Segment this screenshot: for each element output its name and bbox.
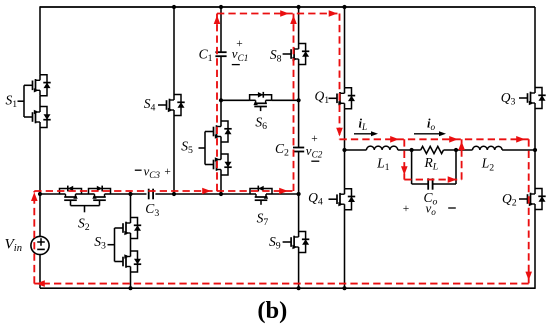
label C1 xyxy=(199,47,213,65)
red arrow output b xyxy=(449,136,458,143)
wire C2 to rail xyxy=(298,152,300,195)
wire S9 branch lower xyxy=(298,253,300,289)
red arrow right drop xyxy=(525,272,532,281)
red arrow C1 riser xyxy=(214,15,221,24)
label S3 xyxy=(94,234,106,252)
wire S9 branch upper xyxy=(298,194,300,232)
svg-text:+: + xyxy=(164,166,171,178)
red path top xyxy=(217,13,338,15)
inductor L2 xyxy=(473,146,503,150)
label S8 xyxy=(270,47,282,65)
red arrow RL up xyxy=(458,141,465,150)
wire middle rail a xyxy=(40,193,60,195)
label S5 xyxy=(181,139,193,157)
node top rail S4 xyxy=(172,5,176,9)
red arrow mid a xyxy=(202,188,211,195)
node bottom S9 xyxy=(297,286,301,290)
transistor Q2 xyxy=(519,189,546,210)
red path C1 riser xyxy=(216,14,218,192)
transistor S6 xyxy=(250,92,272,111)
node mid rail S4 xyxy=(172,192,176,196)
red arrow Q1 drop xyxy=(336,128,343,137)
wire left rail upper xyxy=(39,6,41,75)
red path right drop xyxy=(528,139,530,283)
red arrow bottom xyxy=(36,280,45,287)
red arrow output c xyxy=(516,136,525,143)
capacitor C2 xyxy=(293,148,304,152)
wire output rail c xyxy=(444,149,473,151)
wire S8 branch upper xyxy=(298,7,300,44)
wire S5 branch lower xyxy=(220,175,222,194)
wire S6 link left xyxy=(221,99,250,101)
node top rail Q1 xyxy=(342,5,346,9)
label S6 xyxy=(255,115,267,133)
label S9 xyxy=(269,234,281,252)
label Q3 xyxy=(501,90,516,108)
label -vC3+ xyxy=(135,163,171,180)
red arrow top mid xyxy=(280,10,289,17)
label S1 xyxy=(6,93,18,111)
transistor Q4 xyxy=(329,189,356,210)
red loop RL down xyxy=(403,139,405,179)
switch S5 (MOSFET pair) xyxy=(199,121,232,175)
svg-text:+: + xyxy=(311,133,318,145)
label Q1 xyxy=(315,88,330,106)
red path mid rail xyxy=(34,190,293,192)
wire Co bottom right xyxy=(433,183,456,185)
transistor S4 xyxy=(158,95,185,116)
wire middle rail c xyxy=(155,193,250,195)
red arrow RL down xyxy=(401,166,408,175)
node mid rail S9 xyxy=(297,192,301,196)
switch S1 (MOSFET pair) xyxy=(18,75,51,128)
wire output rail a xyxy=(345,149,367,151)
red path Q1 drop xyxy=(339,14,341,140)
capacitor Co xyxy=(428,178,432,189)
red arrow RL bottom xyxy=(448,176,457,183)
wire Q1 branch upper xyxy=(344,7,346,88)
wire Q1 to output rail xyxy=(344,109,346,189)
svg-text:(b): (b) xyxy=(257,297,287,324)
transistor S8 xyxy=(283,44,310,65)
label Q2 xyxy=(502,191,517,209)
label +vC1- xyxy=(232,38,249,64)
node bottom Q4 xyxy=(342,286,346,290)
label L2 xyxy=(481,156,495,174)
wire S8 to C2 xyxy=(298,65,300,148)
node mid rail S5 xyxy=(219,192,223,196)
transistor S7 xyxy=(250,186,272,205)
node S6 left xyxy=(219,98,223,102)
svg-text:+: + xyxy=(403,203,410,215)
transistor Q1 xyxy=(329,88,356,109)
wire left rail mid xyxy=(39,128,41,195)
node mid rail S3 xyxy=(128,192,132,196)
red arrow output a xyxy=(390,136,399,143)
label +vC2- xyxy=(306,133,323,161)
label Vin xyxy=(5,236,23,255)
caption (b) xyxy=(257,297,287,324)
node S6 right xyxy=(297,98,301,102)
node output right xyxy=(533,148,537,152)
label L1 xyxy=(376,156,390,174)
red arrow left riser xyxy=(31,192,38,201)
wire S6 link right xyxy=(272,99,299,101)
red loop RL bottom xyxy=(404,179,461,181)
label S7 xyxy=(257,210,269,228)
capacitor C3 xyxy=(149,189,153,200)
wire Q4 branch lower xyxy=(344,210,346,289)
label Co xyxy=(424,190,438,208)
wire C1 branch mid xyxy=(220,56,222,121)
label io with arrow xyxy=(414,116,446,136)
capacitor C1 xyxy=(215,52,226,56)
wire right rail mid xyxy=(534,109,536,189)
node top rail C1 xyxy=(219,5,223,9)
inductor L1 xyxy=(367,146,398,150)
red path bottom xyxy=(34,283,528,285)
node bottom S3 xyxy=(128,286,132,290)
label - vo xyxy=(448,207,456,209)
wire RL box left xyxy=(411,150,413,184)
label C2 xyxy=(275,141,289,159)
label Q4 xyxy=(308,190,323,208)
red arrow mid b xyxy=(279,188,288,195)
wire bottom rail xyxy=(40,287,535,289)
wire top rail xyxy=(40,6,535,8)
label + vo xyxy=(403,203,410,215)
resistor RL xyxy=(421,146,444,153)
wire output rail d xyxy=(502,149,535,151)
label vo xyxy=(426,201,437,218)
node mid rail left xyxy=(38,192,42,196)
red arrow top corner xyxy=(329,10,338,17)
node output RL right xyxy=(454,148,458,152)
red path C2 riser xyxy=(293,14,295,192)
wire right rail upper xyxy=(534,7,536,88)
wire S4 branch upper xyxy=(173,7,175,95)
wire RL box right xyxy=(455,150,457,184)
wire Co bottom left xyxy=(412,183,429,185)
wire middle rail b xyxy=(111,193,147,195)
source Vin xyxy=(31,236,49,254)
wire right rail lower xyxy=(534,210,536,289)
label iL with arrow xyxy=(354,116,378,136)
red path output xyxy=(340,138,529,140)
wire C1 branch upper xyxy=(220,7,222,52)
label RL xyxy=(424,155,439,173)
wire left rail to Vin xyxy=(39,194,41,236)
red path left riser xyxy=(33,191,35,284)
transistor S9 xyxy=(283,232,310,253)
node output Q1 xyxy=(342,148,346,152)
transistor Q3 xyxy=(519,88,546,109)
label C3 xyxy=(145,201,159,219)
wire S4 branch lower xyxy=(173,116,175,195)
label S2 xyxy=(78,215,90,233)
switch S3 (MOSFET pair) xyxy=(108,194,142,288)
red loop RL up xyxy=(461,139,463,179)
wire output rail b xyxy=(398,149,421,151)
switch S2 (MOSFET pair) xyxy=(60,186,111,213)
wire left rail lower xyxy=(39,255,41,289)
node output RL left xyxy=(410,148,414,152)
wire middle rail d xyxy=(272,193,299,195)
red arrow C2 riser xyxy=(290,15,297,24)
label S4 xyxy=(144,96,156,114)
node top rail S8 xyxy=(297,5,301,9)
